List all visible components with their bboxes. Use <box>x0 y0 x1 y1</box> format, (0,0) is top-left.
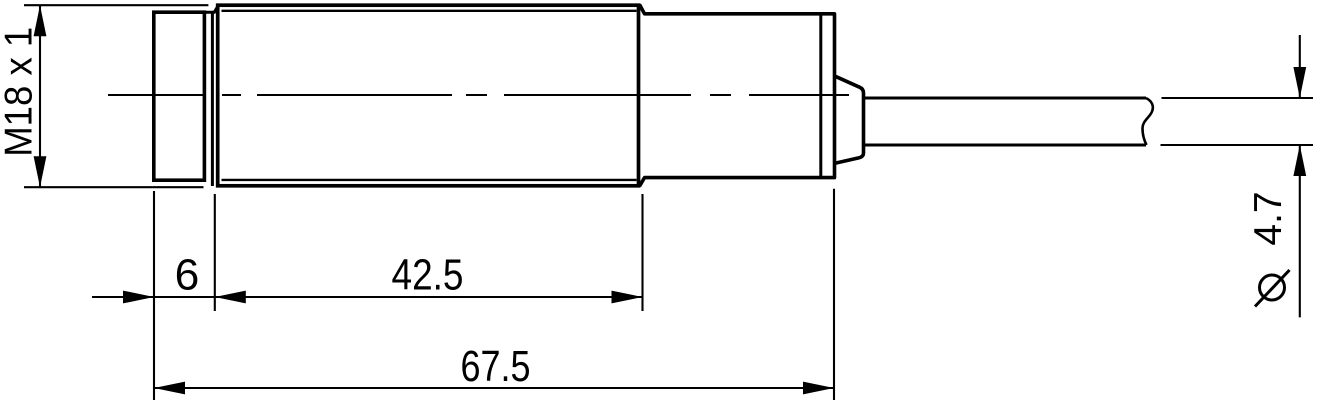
svg-text:6: 6 <box>175 252 200 300</box>
svg-text:M18 x 1: M18 x 1 <box>0 27 41 157</box>
svg-text:42.5: 42.5 <box>392 252 464 300</box>
svg-text:67.5: 67.5 <box>461 343 531 391</box>
svg-text:4.7: 4.7 <box>1247 191 1290 245</box>
